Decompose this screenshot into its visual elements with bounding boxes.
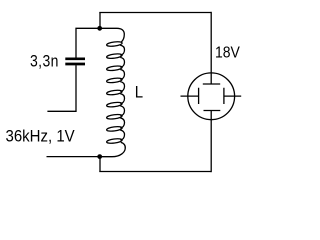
- node B (bottom junction): [97, 154, 102, 159]
- capacitor C1 3,3n (plates): [65, 59, 85, 64]
- svg-text:L: L: [135, 84, 143, 102]
- wire: bottom rail: [99, 171, 211, 173]
- inductor L: [100, 28, 126, 156]
- wire: lower source terminal stub to node B: [47, 156, 100, 158]
- wire: top-left vertical (node A up to top rail): [99, 13, 101, 29]
- wire: right rail down to lamp top: [210, 12, 212, 73]
- svg-text:3,3n: 3,3n: [30, 53, 59, 71]
- wire: node A left and down to capacitor top: [76, 28, 100, 57]
- wire: top rail: [99, 12, 211, 14]
- wire: bottom rail up to lamp bottom: [210, 119, 212, 172]
- node A (top junction): [97, 26, 102, 31]
- wire: node B down to bottom rail: [99, 157, 101, 172]
- svg-text:36kHz, 1V: 36kHz, 1V: [6, 128, 76, 146]
- wire: capacitor bottom down and left to source terminal (open stub): [47, 65, 76, 111]
- lamp V1 (tube symbol): [181, 73, 242, 120]
- svg-text:18V: 18V: [215, 45, 240, 62]
